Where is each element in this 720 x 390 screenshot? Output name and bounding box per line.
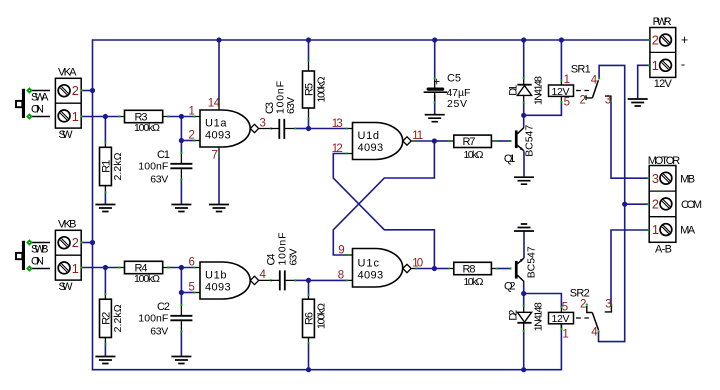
svg-text:U1a: U1a: [205, 118, 227, 130]
wire MOTOR pin1 MA down to SR2 contact pin3: [611, 230, 650, 305]
node D2-Q2-SR2: [521, 291, 526, 296]
diode D2 1N4148: [508, 302, 545, 332]
diode D1 1N4148: [508, 76, 545, 105]
svg-text:-: -: [681, 58, 685, 72]
resistor R5: [303, 60, 328, 120]
wire node to R7: [434, 140, 448, 142]
node D1-Q1-SR1: [521, 113, 526, 118]
svg-text:5: 5: [189, 281, 195, 293]
wire rail to R5: [308, 40, 310, 60]
wire SR1 contact pin4 over to COM column down to SR2 pin4: [599, 65, 625, 341]
wire rail to C5: [434, 40, 436, 78]
wire R3 to U1a pin1: [168, 116, 195, 118]
svg-text:2: 2: [72, 235, 79, 250]
wire +12V top rail: [93, 39, 650, 41]
node U1d pin11: [432, 138, 437, 143]
svg-text:Q1: Q1: [504, 153, 516, 165]
wire VKA pin1 to R3: [82, 116, 120, 118]
svg-text:R5: R5: [304, 83, 316, 96]
ground above Q2 inverted: [514, 224, 534, 231]
NAND gate U1c 4093: [338, 245, 424, 287]
svg-text:100nF: 100nF: [138, 160, 168, 172]
wire node to R8: [434, 268, 448, 270]
ground below Q1: [514, 177, 534, 184]
svg-text:13: 13: [332, 118, 343, 130]
capacitor C5 electrolytic: [424, 73, 471, 110]
svg-text:U1d: U1d: [358, 130, 380, 142]
svg-text:C5: C5: [447, 73, 461, 85]
svg-text:63V: 63V: [287, 249, 299, 266]
wire VKB pin1 to R4: [82, 267, 120, 269]
ground below C5: [425, 115, 445, 122]
svg-text:10: 10: [412, 257, 423, 269]
svg-text:4: 4: [260, 269, 267, 281]
svg-text:R2: R2: [101, 312, 113, 325]
node rail-pin14: [216, 37, 221, 42]
svg-text:1: 1: [189, 106, 195, 118]
ground below PWR: [628, 99, 648, 106]
NAND gate U1b 4093: [189, 257, 272, 300]
wire node to R1: [104, 117, 106, 143]
svg-text:VKA: VKA: [58, 67, 77, 79]
svg-text:14: 14: [208, 97, 221, 109]
svg-text:2: 2: [652, 197, 659, 212]
wire U1d pin11 to node: [416, 140, 434, 142]
node COM: [622, 202, 627, 207]
svg-text:2: 2: [652, 33, 659, 48]
relay coil SR2: [549, 287, 590, 340]
wire SR1 contact pin3 down to MOTOR pin3 MB: [611, 102, 650, 178]
node R1 branch: [103, 114, 108, 119]
wire Q1 emitter to ground: [523, 151, 525, 176]
wire VKB pin2 to left rail: [82, 242, 93, 244]
ground below C2: [171, 357, 191, 364]
svg-text:4093: 4093: [358, 142, 384, 154]
resistor R1: [100, 142, 125, 194]
capacitor C3: [264, 81, 297, 139]
svg-text:ON: ON: [31, 255, 44, 267]
svg-text:2.2kΩ: 2.2kΩ: [112, 304, 124, 332]
node rail-SR1: [559, 37, 564, 42]
node VKB2-rail: [90, 240, 95, 245]
svg-text:9: 9: [338, 245, 344, 257]
svg-text:12V: 12V: [552, 313, 570, 325]
node rail-D1: [521, 37, 526, 42]
connector MOTOR: [647, 155, 702, 255]
wire to U1a pin2: [181, 140, 194, 142]
svg-text:1: 1: [652, 58, 659, 73]
svg-text:1: 1: [564, 74, 570, 86]
svg-text:2: 2: [72, 83, 79, 98]
svg-text:R8: R8: [463, 263, 476, 275]
relay contact SR1: [576, 75, 612, 107]
svg-text:2: 2: [189, 129, 195, 141]
svg-text:BC547: BC547: [524, 125, 536, 157]
svg-text:25V: 25V: [447, 98, 467, 110]
node U1b pin6 branch: [179, 265, 184, 270]
capacitor C2: [138, 301, 192, 337]
svg-text:R6: R6: [304, 312, 316, 325]
wire node to SR1 coil pin5: [524, 102, 562, 115]
svg-text:+: +: [433, 76, 440, 88]
node U1c pin10: [432, 266, 437, 271]
wire C1 to ground: [180, 179, 182, 204]
node U1a pin2 branch: [179, 138, 184, 143]
svg-text:100kΩ: 100kΩ: [134, 122, 160, 134]
svg-text:D1: D1: [508, 85, 520, 96]
svg-text:12: 12: [332, 143, 343, 155]
wire node to U1c pin8: [309, 279, 347, 281]
node rail-R5: [306, 37, 311, 42]
svg-text:8: 8: [338, 270, 344, 282]
svg-text:4093: 4093: [205, 281, 231, 293]
node R2 branch: [103, 265, 108, 270]
svg-text:Q2: Q2: [504, 280, 516, 292]
svg-text:4093: 4093: [205, 129, 231, 141]
relay coil SR1: [549, 64, 591, 109]
svg-text:10kΩ: 10kΩ: [464, 276, 484, 288]
wire D2 to bottom rail: [523, 331, 525, 370]
wire node to SR2 coil pin5: [524, 294, 562, 308]
svg-text:SWA: SWA: [31, 92, 49, 104]
svg-text:1N4148: 1N4148: [532, 302, 544, 331]
svg-text:1: 1: [72, 109, 79, 124]
wire Q2 collector to node: [523, 281, 525, 293]
svg-text:11: 11: [412, 130, 423, 142]
svg-text:1: 1: [652, 222, 659, 237]
transistor Q1 BC547: [504, 125, 536, 166]
wire R8 to Q2 base: [497, 268, 511, 270]
transistor Q2 BC547: [504, 246, 538, 292]
svg-text:4093: 4093: [358, 270, 384, 282]
svg-text:5: 5: [562, 302, 568, 314]
relay contact SR2: [576, 299, 612, 339]
wire R6 to bottom rail: [308, 343, 310, 370]
wire SR2 coil pin1 to bottom rail: [560, 323, 562, 371]
wire U1a pin7 to ground: [218, 154, 220, 204]
wire rail to SR1 coil pin1: [560, 40, 562, 80]
wire U1d out to U1c pin9 cross-coupling: [333, 141, 434, 255]
svg-text:VKB: VKB: [58, 219, 77, 231]
svg-text:12V: 12V: [654, 78, 673, 90]
node R6-rail: [306, 367, 311, 372]
wire D1 to node: [523, 103, 525, 116]
wire node to D2: [523, 294, 525, 308]
capacitor C4: [266, 233, 300, 291]
svg-text:SWB: SWB: [31, 244, 49, 256]
svg-text:2.2kΩ: 2.2kΩ: [112, 152, 124, 180]
switch SWA: [16, 87, 50, 120]
svg-text:63V: 63V: [150, 173, 168, 185]
wire C2 to ground: [180, 331, 182, 356]
svg-text:D2: D2: [508, 310, 520, 321]
wire R2 to ground: [104, 343, 106, 356]
svg-text:BC547: BC547: [526, 246, 538, 278]
svg-text:MB: MB: [680, 174, 695, 186]
capacitor C1: [138, 149, 192, 185]
wire U1c pin10 to node: [416, 268, 434, 270]
wire +12V left rail: [92, 39, 94, 370]
resistor R7: [448, 135, 498, 161]
svg-text:10kΩ: 10kΩ: [464, 149, 484, 161]
svg-text:R7: R7: [463, 136, 476, 148]
svg-text:1: 1: [72, 261, 79, 276]
wire to U1b pin5: [181, 292, 194, 294]
node U1a pin1 branch: [179, 114, 184, 119]
resistor R8: [448, 262, 498, 288]
resistor R4: [118, 261, 169, 285]
wire +12V bottom rail: [92, 369, 562, 371]
wire R5 to node: [308, 118, 310, 128]
resistor R6: [303, 294, 328, 344]
svg-text:1: 1: [562, 329, 568, 341]
svg-text:U1c: U1c: [358, 258, 380, 270]
svg-text:MOTOR: MOTOR: [648, 155, 681, 167]
svg-text:4: 4: [591, 75, 598, 87]
wire Q1 collector to node: [523, 115, 525, 127]
svg-text:1N4148: 1N4148: [532, 76, 544, 105]
svg-text:R1: R1: [101, 160, 113, 173]
node rail-C5: [432, 37, 437, 42]
svg-text:COM: COM: [681, 199, 702, 211]
wire branch down to U1b pin5 and C2: [180, 268, 182, 305]
svg-text:MA: MA: [680, 225, 696, 237]
svg-text:2: 2: [580, 299, 586, 311]
NAND gate U1d 4093: [332, 118, 423, 160]
NAND gate U1a 4093: [189, 97, 272, 161]
svg-text:63V: 63V: [285, 97, 297, 114]
svg-text:C2: C2: [157, 301, 170, 313]
wire C4 to node: [295, 279, 309, 281]
svg-text:4: 4: [591, 327, 598, 339]
wire C5 to ground: [434, 95, 436, 114]
wire branch down to U1a pin2 and C1: [180, 117, 182, 153]
svg-text:3: 3: [260, 117, 266, 129]
wire PWR pin1 to ground: [638, 65, 650, 98]
svg-text:3: 3: [652, 171, 659, 186]
switch SWB: [16, 239, 50, 272]
wire U1a pin14 to rail: [218, 40, 220, 101]
wire VKA pin2 to left rail: [82, 90, 93, 92]
svg-text:6: 6: [189, 257, 195, 269]
svg-text:SR1: SR1: [571, 64, 591, 76]
svg-text:100kΩ: 100kΩ: [316, 76, 328, 102]
wire U1c out to U1d pin12 cross-coupling: [333, 154, 434, 269]
node VKA2-rail: [90, 88, 95, 93]
svg-text:ON: ON: [31, 103, 44, 115]
connector PWR: [648, 16, 688, 90]
svg-text:7: 7: [212, 149, 218, 161]
wire rail to D1: [523, 40, 525, 78]
connector VKA: [55, 67, 82, 141]
svg-text:100kΩ: 100kΩ: [316, 303, 328, 329]
wire R7 to Q1 base: [497, 140, 511, 142]
svg-text:SW: SW: [59, 281, 74, 293]
node C3-R5-pin13: [306, 126, 311, 131]
svg-text:SR2: SR2: [570, 287, 590, 299]
node U1b pin5 branch: [179, 290, 184, 295]
wire R1 to ground: [104, 192, 106, 204]
svg-text:A-B: A-B: [655, 244, 672, 256]
svg-text:+: +: [681, 33, 688, 47]
node D2-rail: [521, 367, 526, 372]
wire node to R6: [308, 280, 310, 294]
wire node to R2: [104, 268, 106, 294]
resistor R2: [100, 293, 125, 344]
wire COM node to MOTOR pin2: [625, 203, 650, 205]
svg-text:63V: 63V: [150, 325, 168, 337]
svg-text:100kΩ: 100kΩ: [134, 273, 160, 285]
ground below U1a pin7: [209, 205, 229, 212]
resistor R3: [118, 110, 169, 134]
ground below C1: [171, 205, 191, 212]
node C4-R6-pin8: [306, 278, 311, 283]
ground below R1: [95, 205, 115, 212]
svg-text:100nF: 100nF: [138, 312, 168, 324]
wire C3 to node: [295, 128, 309, 130]
svg-text:U1b: U1b: [205, 269, 227, 281]
svg-text:3: 3: [605, 299, 611, 311]
svg-text:SW: SW: [59, 129, 74, 141]
svg-text:2: 2: [580, 95, 586, 107]
wire Q2 emitter to upper ground: [523, 232, 525, 259]
wire R4 to U1b pin6: [168, 267, 195, 269]
connector VKB: [55, 219, 82, 293]
svg-text:3: 3: [605, 95, 611, 107]
svg-text:C1: C1: [157, 149, 170, 161]
ground below R2: [95, 357, 115, 364]
svg-text:5: 5: [564, 97, 570, 109]
svg-text:PWR: PWR: [653, 16, 672, 28]
wire node to U1d pin13: [309, 128, 347, 130]
